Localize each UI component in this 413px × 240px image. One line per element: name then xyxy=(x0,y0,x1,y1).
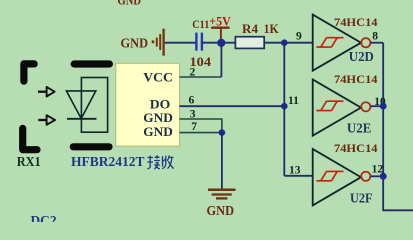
wire GND pin 3 xyxy=(180,119,222,133)
wire VCC pin 2 up to +5V node xyxy=(180,76,222,78)
junction node DO bus top xyxy=(281,39,288,46)
U2F output bubble xyxy=(361,172,370,181)
U2D hysteresis glyph xyxy=(316,38,343,47)
optical package bracket top-left xyxy=(24,64,34,81)
optical package bar bottom xyxy=(73,143,109,150)
optical package bar top xyxy=(74,60,109,67)
wire DO pin 6 to bus xyxy=(180,105,285,107)
light arrow 1 xyxy=(38,87,55,97)
svg-text:6: 6 xyxy=(189,94,195,106)
op-amp U2D triangle xyxy=(313,15,361,71)
wire U2F input from bus xyxy=(284,175,312,177)
wire U2E output xyxy=(370,105,383,107)
vertical DO bus wire xyxy=(283,43,285,176)
svg-text:R4: R4 xyxy=(242,21,259,36)
wire ground symbol to C11 xyxy=(165,42,197,44)
svg-text:1K: 1K xyxy=(264,21,280,36)
svg-text:13: 13 xyxy=(289,164,301,176)
capacitor C11 xyxy=(196,33,202,51)
wire U2D output xyxy=(370,42,383,44)
svg-text:9: 9 xyxy=(296,31,302,43)
svg-text:DC2: DC2 xyxy=(31,213,57,222)
U2E output bubble xyxy=(361,102,370,111)
U2F hysteresis glyph xyxy=(316,171,343,180)
svg-text:GND: GND xyxy=(143,111,173,125)
light arrow 2 xyxy=(38,115,55,125)
photodiode cathode bar xyxy=(67,118,97,120)
op-amp U2E triangle xyxy=(313,80,361,136)
svg-text:11: 11 xyxy=(288,95,299,107)
svg-text:VCC: VCC xyxy=(143,71,173,85)
wire down to ground xyxy=(221,133,223,190)
svg-text:GND: GND xyxy=(121,35,149,50)
resistor R4 xyxy=(235,37,264,49)
junction node GND pins xyxy=(219,129,226,136)
svg-text:RX1: RX1 xyxy=(17,154,41,169)
svg-text:U2E: U2E xyxy=(347,120,372,135)
power ground symbol (three bars, rotated) xyxy=(152,29,164,56)
wire U2F output xyxy=(370,175,383,177)
U2D output bubble xyxy=(361,38,370,47)
component body HFBR2412T xyxy=(116,63,180,146)
op-amp U2F triangle xyxy=(313,149,361,205)
optical package bracket bottom-left xyxy=(23,128,37,149)
svg-text:GND: GND xyxy=(207,203,235,218)
node +5V junction xyxy=(217,39,225,47)
svg-text:U2F: U2F xyxy=(350,190,373,205)
wire GND pin 7 xyxy=(180,132,222,134)
label 接收 (drawn glyphs) xyxy=(147,155,160,169)
svg-text:C11: C11 xyxy=(192,17,209,31)
junction node outputs (U2E) xyxy=(380,103,387,110)
svg-text:8: 8 xyxy=(372,30,378,42)
svg-text:74HC14: 74HC14 xyxy=(334,141,378,155)
wire +5V node to R4 xyxy=(221,42,235,44)
U2E hysteresis glyph xyxy=(316,101,343,110)
svg-text:U2D: U2D xyxy=(349,49,374,64)
svg-text:DO: DO xyxy=(150,98,171,112)
wire output bus vertical, exits right xyxy=(383,43,413,211)
earth ground symbol xyxy=(208,190,236,199)
photodiode enclosure rectangle xyxy=(81,78,107,133)
wire R4 to U2D input xyxy=(264,42,313,44)
svg-text:GND: GND xyxy=(118,0,142,8)
wire C11 to +5V node xyxy=(202,42,222,44)
svg-text:HFBR2412T: HFBR2412T xyxy=(71,154,145,169)
svg-text:7: 7 xyxy=(191,121,197,133)
junction node outputs (U2F) xyxy=(380,173,387,180)
photodiode D (triangle) xyxy=(66,91,95,119)
svg-text:74HC14: 74HC14 xyxy=(334,15,378,29)
svg-text:74HC14: 74HC14 xyxy=(334,72,378,86)
svg-text:GND: GND xyxy=(143,125,173,139)
junction node DO bus middle xyxy=(281,103,288,110)
